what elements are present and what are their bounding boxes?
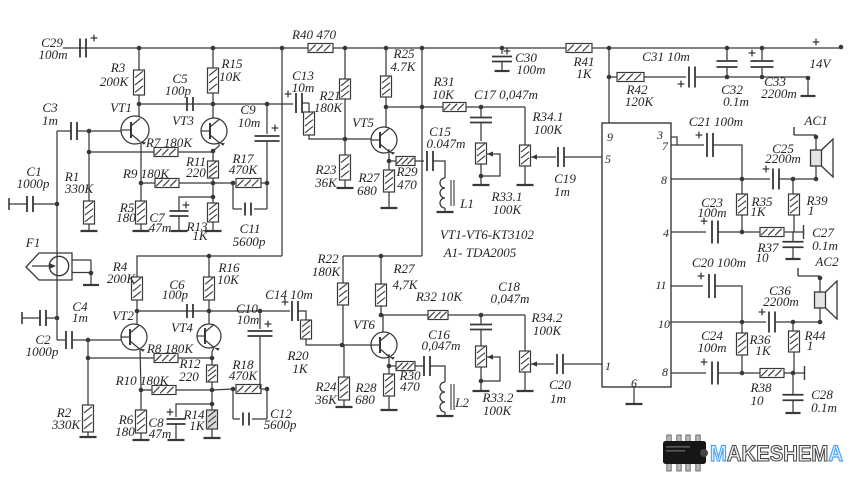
svg-text:10: 10: [750, 393, 764, 408]
svg-text:0,047m: 0,047m: [491, 291, 530, 306]
svg-text:VT5: VT5: [352, 115, 374, 130]
svg-text:C14 10m: C14 10m: [265, 287, 313, 302]
svg-text:0.1m: 0.1m: [812, 238, 838, 253]
svg-text:100K: 100K: [534, 122, 564, 137]
svg-text:AC1: AC1: [803, 113, 827, 128]
svg-text:220: 220: [186, 165, 206, 180]
svg-text:36K: 36K: [314, 392, 338, 407]
svg-text:120K: 120K: [625, 94, 655, 109]
svg-text:100m: 100m: [697, 340, 726, 355]
svg-text:F1: F1: [25, 235, 41, 250]
svg-text:10K: 10K: [219, 69, 242, 84]
svg-text:180: 180: [115, 424, 135, 439]
svg-text:470K: 470K: [229, 368, 259, 383]
svg-text:0.047m: 0.047m: [427, 136, 466, 151]
svg-text:100K: 100K: [483, 403, 513, 418]
svg-text:1K: 1K: [755, 343, 772, 358]
svg-text:1K: 1K: [192, 228, 209, 243]
svg-text:100K: 100K: [533, 323, 563, 338]
svg-text:2200m: 2200m: [763, 294, 799, 309]
svg-text:1m: 1m: [550, 391, 566, 406]
svg-text:A1- TDA2005: A1- TDA2005: [443, 245, 517, 260]
svg-text:220: 220: [179, 369, 199, 384]
svg-text:100p: 100p: [162, 287, 189, 302]
svg-text:5600p: 5600p: [233, 234, 266, 249]
svg-text:R10 180K: R10 180K: [115, 373, 170, 388]
svg-text:1: 1: [605, 359, 611, 373]
svg-text:680: 680: [357, 183, 377, 198]
svg-text:1: 1: [807, 338, 814, 353]
svg-text:10: 10: [755, 250, 769, 265]
svg-text:470: 470: [400, 379, 420, 394]
svg-text:7: 7: [662, 139, 669, 153]
svg-text:C31 10m: C31 10m: [642, 49, 690, 64]
svg-text:C20 100m: C20 100m: [692, 255, 746, 270]
svg-text:680: 680: [355, 392, 375, 407]
svg-text:C21 100m: C21 100m: [689, 114, 743, 129]
svg-text:R40 470: R40 470: [291, 27, 336, 42]
svg-text:5600p: 5600p: [264, 417, 297, 432]
svg-text:L1: L1: [459, 196, 474, 211]
svg-text:180: 180: [116, 210, 136, 225]
svg-text:VT3: VT3: [172, 113, 194, 128]
svg-text:100K: 100K: [493, 202, 523, 217]
svg-text:1000p: 1000p: [26, 344, 59, 359]
svg-text:10K: 10K: [217, 272, 240, 287]
svg-text:C20: C20: [549, 377, 571, 392]
svg-text:1: 1: [808, 203, 815, 218]
svg-text:100m: 100m: [697, 205, 726, 220]
svg-text:36K: 36K: [314, 175, 338, 190]
svg-text:C17 0,047m: C17 0,047m: [474, 87, 538, 102]
svg-text:330K: 330K: [51, 417, 82, 432]
svg-text:5: 5: [605, 152, 611, 166]
svg-text:1m: 1m: [554, 184, 570, 199]
svg-text:0,047m: 0,047m: [422, 338, 461, 353]
svg-text:14V: 14V: [810, 56, 833, 71]
svg-text:4.7K: 4.7K: [390, 59, 416, 74]
svg-text:R7 180K: R7 180K: [145, 135, 193, 150]
svg-text:100m: 100m: [38, 47, 67, 62]
svg-text:VT1-VT6-KT3102: VT1-VT6-KT3102: [440, 227, 534, 242]
svg-text:10m: 10m: [238, 115, 261, 130]
svg-text:R9 180K: R9 180K: [122, 166, 170, 181]
svg-text:180K: 180K: [314, 100, 344, 115]
svg-text:2200m: 2200m: [765, 151, 801, 166]
svg-text:R32 10K: R32 10K: [415, 289, 463, 304]
svg-text:1K: 1K: [292, 361, 309, 376]
svg-text:2200m: 2200m: [761, 86, 797, 101]
svg-text:R8 180K: R8 180K: [146, 341, 194, 356]
svg-text:1m: 1m: [72, 310, 88, 325]
svg-text:AC2: AC2: [814, 254, 839, 269]
svg-text:11: 11: [655, 278, 666, 292]
svg-text:330K: 330K: [64, 181, 95, 196]
svg-text:R3: R3: [110, 60, 126, 75]
svg-text:180K: 180K: [312, 264, 342, 279]
svg-text:10m: 10m: [292, 80, 315, 95]
svg-text:8: 8: [662, 365, 668, 379]
svg-text:VT2: VT2: [112, 308, 134, 323]
svg-text:1K: 1K: [576, 66, 593, 81]
svg-text:VT1: VT1: [110, 100, 132, 115]
svg-text:8: 8: [661, 173, 667, 187]
svg-text:MAKESHEMA: MAKESHEMA: [710, 441, 843, 466]
svg-text:1K: 1K: [189, 418, 206, 433]
svg-text:L2: L2: [454, 395, 469, 410]
svg-text:47m: 47m: [149, 220, 172, 235]
svg-text:47m: 47m: [149, 426, 172, 441]
svg-text:100p: 100p: [165, 83, 192, 98]
svg-text:200K: 200K: [100, 74, 130, 89]
svg-text:10m: 10m: [237, 312, 260, 327]
svg-text:4: 4: [663, 226, 669, 240]
svg-text:0.1m: 0.1m: [723, 94, 749, 109]
svg-text:VT4: VT4: [171, 320, 193, 335]
svg-text:0.1m: 0.1m: [811, 400, 837, 415]
svg-text:470: 470: [397, 177, 417, 192]
svg-text:100m: 100m: [516, 62, 545, 77]
svg-text:4,7K: 4,7K: [392, 277, 418, 292]
svg-text:9: 9: [607, 130, 613, 144]
svg-text:10K: 10K: [432, 87, 455, 102]
svg-text:1000p: 1000p: [17, 176, 50, 191]
svg-text:VT6: VT6: [353, 317, 375, 332]
svg-text:R27: R27: [392, 261, 415, 276]
svg-text:1m: 1m: [42, 113, 58, 128]
svg-text:200K: 200K: [107, 271, 137, 286]
svg-text:10: 10: [658, 317, 670, 331]
svg-text:470K: 470K: [229, 162, 259, 177]
svg-text:1K: 1K: [750, 204, 767, 219]
